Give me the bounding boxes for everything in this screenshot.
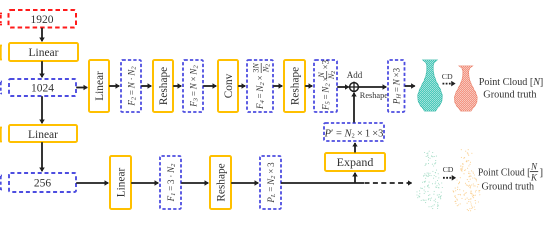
Linear layer box (top-left) [9,43,78,61]
feature box F2 = N * N2 (blue dashed) [121,60,141,112]
svg-text:Linear: Linear [28,129,58,141]
svg-text:×3: ×3 [321,59,331,69]
svg-text:Expand: Expand [337,155,374,169]
svg-text:Reshape: Reshape [360,91,388,100]
left-edge cropped blue dashed box fragment [1,82,2,95]
svg-text:CD: CD [443,165,454,174]
svg-text:]: ] [540,167,544,179]
wire Linear 2 to 256 [41,142,43,171]
wire F5 to add node [337,86,348,88]
wire bottom rail up to Expand [354,173,356,183]
feature box P' = N2 x 1 x3 (blue dashed) [324,123,384,141]
vertical Linear box (bottom row) [110,156,131,209]
wire P' up to add node (reshape) [353,93,355,123]
wire PH to dense point cloud [405,85,415,87]
wire F4 to Reshape 2 [273,85,282,87]
wire F3 to Conv [203,85,216,87]
Linear layer box 2 (left) [9,125,77,142]
feature box F3 = N x N2 (blue dashed) [183,60,203,112]
wire Linear to 1024 [41,61,43,77]
svg-text:PH = N ×3: PH = N ×3 [392,67,403,105]
add node (circle plus) [350,83,359,92]
svg-text:F1 = 3 · N2: F1 = 3 · N2 [166,163,177,203]
wire bottom Linear to F1 [131,182,158,184]
left-edge cropped orange box fragment [1,46,2,60]
wire vertical Linear to F2 [109,85,119,87]
svg-text:Reshape: Reshape [215,163,227,201]
svg-text:F3 = N × N2: F3 = N × N2 [188,65,199,108]
feature box PH = N x3 (blue dashed) [388,60,405,112]
feature box F1 = 3 * N2 (blue dashed) [160,156,181,209]
svg-text:Linear: Linear [115,168,127,198]
wire 1920 to Linear [41,28,43,41]
wire F2 to Reshape [141,85,151,87]
svg-text:Point Cloud [N]: Point Cloud [N] [479,76,544,88]
ground truth sparse point cloud (light orange dots) [453,149,481,211]
svg-text:Point Cloud [: Point Cloud [ [478,167,531,179]
feature box F5 = N2 x N/N2 x3 (blue dashed, fraction) [314,60,337,112]
svg-text:N: N [530,162,538,172]
feature box 1024 (blue dashed) [9,79,76,96]
svg-text:1920: 1920 [31,14,54,26]
svg-text:PL = N2 × 3: PL = N2 × 3 [266,162,277,204]
wire Expand up to P' [354,143,356,153]
Reshape box (top row 1) [153,60,173,112]
svg-text:Linear: Linear [28,47,58,59]
wire F1 to bottom Reshape [181,182,208,184]
ground truth dense point cloud (coral vase) [455,66,478,111]
svg-text:N: N [317,72,326,79]
svg-text:Ground truth: Ground truth [482,181,535,193]
CD dotted arrow (top) [443,83,455,85]
svg-text:Ground truth: Ground truth [483,89,537,101]
wire 1024 to vertical Linear [76,87,87,89]
vertical Linear box (top row) [89,60,109,112]
feature box PL = N2 x 3 (blue dashed) [260,156,281,209]
left-edge cropped red dashed box fragment [0,14,2,25]
feature box F4 = N2 x 3N/N2 (blue dashed, fraction) [247,60,273,112]
sparse point cloud output (light teal dots) [416,151,442,210]
input feature box 1920 (red dashed) [9,10,77,28]
bottom rail wire from PL [281,182,364,184]
svg-text:256: 256 [34,178,52,190]
Reshape box (bottom row) [210,156,231,209]
left-edge cropped blue dashed box fragment 2 [1,176,2,191]
svg-text:Linear: Linear [94,71,106,101]
feature box 256 (blue dashed) [9,173,76,192]
svg-text:Conv: Conv [223,73,235,98]
Expand box [325,153,385,171]
svg-text:F2 = N · N2: F2 = N · N2 [126,66,137,107]
Reshape box (top row 2) [284,60,305,112]
svg-text:Reshape: Reshape [289,67,301,105]
svg-text:F5 = N2 ×: F5 = N2 × [321,76,332,111]
CD dotted arrow (bottom) [443,177,455,179]
left-edge cropped orange box fragment 2 [1,128,2,142]
wire Reshape to F3 [173,85,181,87]
wire 1024 down to Linear 2 [41,96,43,123]
Conv box (top row) [218,60,238,112]
svg-text:CD: CD [442,72,453,81]
wire add node to PH [359,86,387,88]
svg-text:1024: 1024 [31,83,54,95]
wire Reshape 2 to F5 [305,85,312,87]
svg-text:Reshape: Reshape [158,67,170,105]
svg-text:F4 = N2 ×: F4 = N2 × [255,75,266,110]
dashed wire to sparse point cloud [365,182,412,184]
svg-text:3N: 3N [251,63,260,73]
wire bottom Reshape to PL [231,182,258,184]
dense point cloud output (teal vase) [418,60,442,111]
svg-text:Add: Add [347,70,363,80]
wire Conv to F4 [238,85,245,87]
wire 256 to bottom Linear [76,182,108,184]
